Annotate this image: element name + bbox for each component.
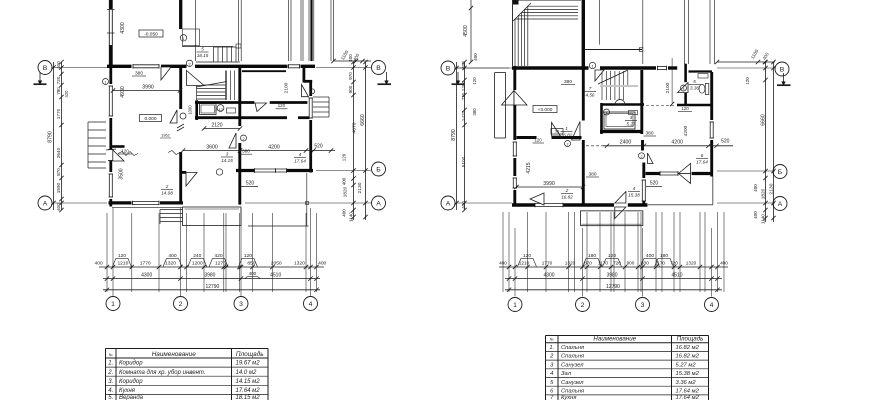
svg-text:4: 4 [299,152,302,157]
svg-text:1170: 1170 [655,261,665,266]
svg-text:520: 520 [246,181,255,187]
svg-text:1200: 1200 [192,261,203,267]
svg-text:2130: 2130 [357,182,363,193]
svg-text:18.15: 18.15 [197,53,209,58]
svg-text:1470: 1470 [461,110,466,121]
svg-text:3: 3 [239,301,243,308]
svg-text:14.15: 14.15 [221,158,233,163]
svg-text:120: 120 [534,138,542,143]
svg-text:А: А [446,201,451,208]
svg-text:830: 830 [641,261,649,266]
svg-text:6: 6 [701,153,704,158]
svg-text:А: А [376,201,381,208]
svg-text:120: 120 [523,253,531,259]
svg-text:17.64 м2: 17.64 м2 [676,389,700,395]
svg-text:3980: 3980 [204,273,215,279]
svg-text:2130: 2130 [769,183,775,194]
svg-text:Наименование: Наименование [593,336,636,343]
svg-text:14.0 м2: 14.0 м2 [236,370,257,376]
svg-text:Б: Б [376,167,381,174]
svg-text:1: 1 [111,301,115,308]
svg-text:А: А [43,201,48,208]
svg-text:Комната для хр. убор инвент.: Комната для хр. убор инвент. [119,370,206,376]
svg-text:520: 520 [650,181,659,187]
svg-text:19.67 м2: 19.67 м2 [236,361,261,367]
svg-text:4200: 4200 [671,140,683,146]
svg-text:520: 520 [721,139,730,145]
svg-text:14.08: 14.08 [161,191,173,196]
svg-text:3.: 3. [108,379,113,385]
svg-text:120: 120 [278,103,286,108]
svg-text:1590: 1590 [56,182,61,193]
svg-text:2120: 2120 [211,123,222,129]
svg-text:5: 5 [693,79,696,84]
svg-text:120: 120 [121,149,129,154]
svg-text:2: 2 [567,143,569,147]
svg-text:1320: 1320 [294,261,305,267]
svg-text:1140: 1140 [761,214,766,224]
svg-text:850: 850 [247,261,255,267]
svg-text:А: А [778,201,783,208]
svg-text:3990: 3990 [142,85,154,91]
svg-text:Санузел: Санузел [561,362,584,368]
svg-text:№: № [550,338,554,342]
svg-text:870: 870 [56,168,61,176]
svg-text:400: 400 [499,261,507,266]
svg-text:-0.050: -0.050 [144,32,158,38]
svg-text:3500: 3500 [119,168,125,179]
svg-text:1210: 1210 [117,261,128,267]
svg-text:2050: 2050 [271,261,282,267]
svg-text:1210: 1210 [519,261,530,266]
svg-text:720: 720 [613,261,621,266]
svg-text:4930: 4930 [120,86,126,98]
svg-text:240: 240 [193,253,201,259]
svg-text:2.12: 2.12 [214,108,223,112]
svg-text:В: В [43,65,48,72]
svg-text:120: 120 [244,253,252,259]
svg-text:17.64: 17.64 [294,159,306,164]
svg-text:7: 7 [589,86,592,91]
svg-text:4670: 4670 [352,122,358,133]
svg-text:380: 380 [588,172,596,178]
svg-text:120: 120 [745,77,750,85]
svg-text:2400: 2400 [620,140,632,146]
svg-text:0.000: 0.000 [144,116,156,122]
svg-text:Б: Б [778,169,783,176]
svg-text:1320: 1320 [565,261,576,266]
svg-text:870: 870 [584,261,592,266]
svg-text:15.38: 15.38 [628,193,640,198]
svg-text:4215: 4215 [526,162,532,173]
svg-text:2100: 2100 [665,82,671,93]
svg-text:Кухня: Кухня [119,388,136,394]
svg-text:380: 380 [564,79,572,85]
svg-text:6660: 6660 [360,114,366,126]
svg-text:4500: 4500 [463,25,469,37]
svg-text:2640: 2640 [56,147,61,158]
svg-text:8790: 8790 [48,131,54,143]
svg-text:ЭВ: ЭВ [555,130,559,134]
svg-text:400: 400 [720,261,728,266]
svg-text:3.36 м2: 3.36 м2 [676,380,697,386]
svg-text:16.82 м2: 16.82 м2 [676,354,700,360]
svg-text:В: В [446,66,451,73]
svg-text:8790: 8790 [451,129,457,141]
svg-text:1320: 1320 [165,261,176,267]
svg-text:900: 900 [627,261,635,266]
svg-text:5.: 5. [108,395,113,400]
svg-text:3: 3 [630,115,633,120]
svg-text:400: 400 [318,261,326,267]
svg-text:2: 2 [581,302,585,309]
svg-text:17.64 м2: 17.64 м2 [236,388,261,394]
svg-text:1.: 1. [108,361,113,367]
svg-text:400: 400 [646,253,654,259]
svg-text:Веранда: Веранда [119,395,144,400]
svg-text:17.64: 17.64 [696,160,708,165]
svg-text:2.: 2. [107,370,113,376]
svg-text:15.38 м2: 15.38 м2 [676,371,700,377]
svg-text:2: 2 [179,301,183,308]
svg-text:4: 4 [606,111,608,115]
svg-text:120: 120 [608,253,616,259]
svg-text:400: 400 [461,201,466,209]
svg-text:16.82: 16.82 [561,195,573,200]
svg-text:4510: 4510 [270,273,281,279]
svg-text:№: № [109,353,113,357]
svg-text:3600: 3600 [206,145,218,151]
svg-text:3980: 3980 [606,273,617,279]
svg-text:5: 5 [201,47,204,52]
svg-text:В: В [376,65,381,72]
svg-text:120: 120 [342,153,347,161]
svg-text:1820: 1820 [343,186,348,197]
svg-text:+3.000: +3.000 [538,107,553,113]
svg-text:4300: 4300 [120,22,126,34]
svg-text:400: 400 [753,184,758,192]
svg-text:420: 420 [214,253,222,259]
svg-text:400: 400 [95,261,103,267]
svg-text:18.15 м2: 18.15 м2 [236,395,261,400]
svg-text:720: 720 [56,76,61,84]
svg-text:Кухня: Кухня [561,395,576,400]
svg-text:400: 400 [56,61,61,69]
svg-text:Коридор: Коридор [119,361,143,367]
svg-text:3: 3 [226,152,229,157]
svg-text:400: 400 [461,61,466,69]
svg-text:380: 380 [472,108,477,116]
svg-text:120: 120 [118,253,126,259]
svg-text:1770: 1770 [140,261,151,267]
svg-text:6660: 6660 [761,114,767,126]
svg-text:120: 120 [681,106,689,111]
svg-text:Санузел: Санузел [561,380,584,386]
svg-text:400: 400 [342,209,347,217]
svg-text:16.82 м2: 16.82 м2 [676,345,700,351]
svg-text:5.27: 5.27 [627,122,636,127]
svg-text:400: 400 [168,253,176,259]
svg-text:180: 180 [588,253,596,259]
svg-text:4: 4 [710,302,714,309]
svg-text:400: 400 [473,53,478,61]
svg-text:3: 3 [641,302,645,309]
svg-text:400: 400 [342,177,347,185]
svg-text:Спальня: Спальня [561,345,584,351]
svg-text:720: 720 [670,261,678,266]
svg-text:1140: 1140 [349,212,354,222]
svg-text:380: 380 [645,131,653,137]
svg-text:Зал: Зал [561,371,572,377]
svg-text:16.82: 16.82 [561,133,573,138]
svg-text:4: 4 [633,186,636,191]
svg-text:420: 420 [64,90,69,98]
svg-text:1000: 1000 [188,105,193,115]
svg-text:1: 1 [105,81,107,85]
svg-text:400: 400 [56,203,61,211]
svg-text:4: 4 [683,87,685,91]
svg-text:1.: 1. [549,345,554,351]
svg-text:380: 380 [242,149,250,154]
svg-text:12790: 12790 [606,284,620,290]
svg-text:Спальня: Спальня [561,389,584,395]
svg-text:1320: 1320 [686,261,697,266]
svg-text:1170: 1170 [598,261,608,266]
svg-text:2100: 2100 [284,82,290,93]
svg-text:Спальня: Спальня [561,354,584,360]
svg-text:2: 2 [565,188,569,193]
svg-text:180: 180 [660,253,668,259]
svg-text:5.27 м2: 5.27 м2 [676,362,697,368]
svg-text:1276: 1276 [215,261,226,267]
svg-text:400: 400 [753,211,758,219]
svg-text:1: 1 [513,302,517,309]
svg-text:900: 900 [348,85,353,93]
svg-text:380: 380 [135,71,143,77]
svg-text:12790: 12790 [205,284,219,290]
svg-text:14.15 м2: 14.15 м2 [236,379,261,385]
svg-text:120: 120 [472,77,477,85]
svg-text:2: 2 [165,184,169,189]
svg-text:720: 720 [461,92,466,100]
svg-text:17.64 м2: 17.64 м2 [676,395,700,400]
svg-text:5100: 5100 [461,156,466,167]
svg-text:4.: 4. [108,388,113,394]
svg-text:4: 4 [309,301,313,308]
svg-text:970: 970 [348,72,353,80]
svg-text:1770: 1770 [542,261,553,266]
svg-text:Наименование: Наименование [152,351,197,358]
svg-text:2: 2 [641,155,643,159]
svg-text:400: 400 [249,271,257,276]
svg-text:1: 1 [565,126,568,131]
svg-text:3.36: 3.36 [690,86,699,91]
svg-text:1962: 1962 [161,134,169,138]
svg-text:1820: 1820 [761,188,766,199]
svg-text:4200: 4200 [268,145,280,151]
svg-text:780: 780 [56,87,61,95]
svg-text:2: 2 [243,137,245,141]
svg-text:Площадь: Площадь [236,350,264,358]
svg-text:4: 4 [550,371,553,377]
svg-text:4300: 4300 [141,273,152,279]
svg-text:4.56: 4.56 [586,93,595,98]
svg-text:1770: 1770 [56,108,61,119]
svg-text:Площадь: Площадь [677,336,704,343]
svg-text:4200: 4200 [683,125,689,136]
svg-text:1200: 1200 [461,80,466,91]
svg-text:520: 520 [314,144,323,150]
svg-text:3990: 3990 [543,181,555,187]
svg-text:4510: 4510 [671,273,682,279]
svg-text:В: В [780,67,785,74]
svg-text:4300: 4300 [543,273,554,279]
svg-text:Коридор: Коридор [119,379,143,385]
